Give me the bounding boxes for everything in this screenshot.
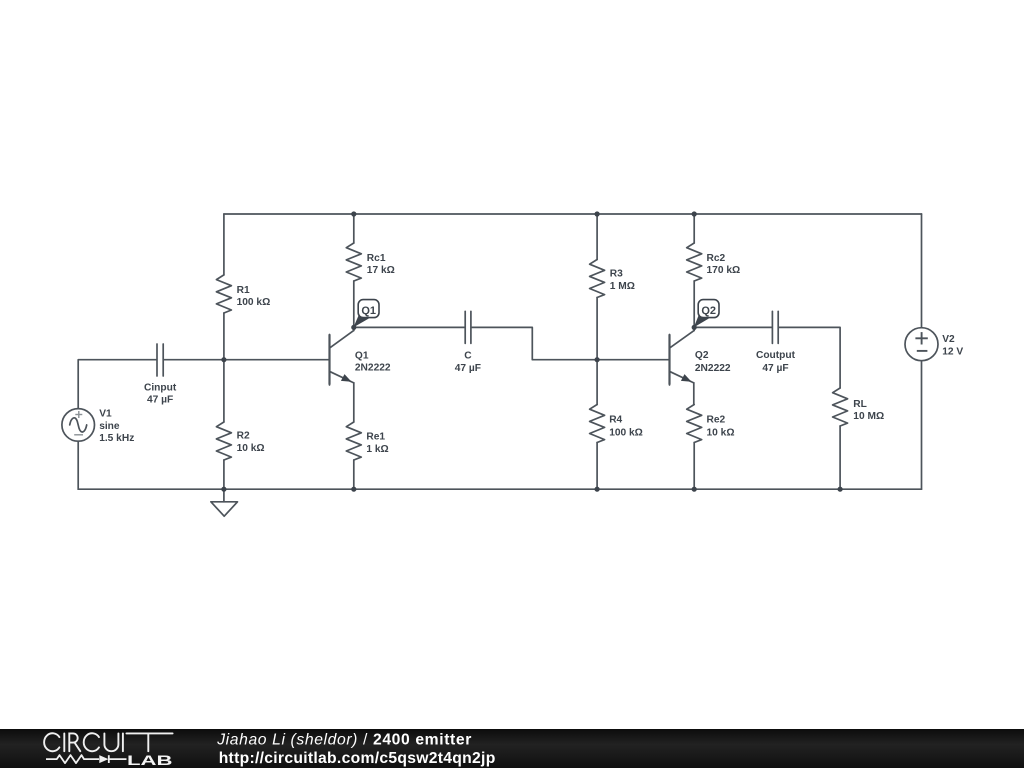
- svg-text:1.5 kHz: 1.5 kHz: [99, 433, 134, 444]
- svg-text:R2: R2: [237, 430, 250, 441]
- svg-text:Re2: Re2: [707, 415, 726, 426]
- svg-text:1 kΩ: 1 kΩ: [366, 444, 388, 455]
- svg-text:1 MΩ: 1 MΩ: [610, 281, 635, 292]
- svg-text:47 µF: 47 µF: [762, 363, 788, 374]
- svg-text:Re1: Re1: [366, 431, 385, 442]
- svg-text:R3: R3: [610, 269, 623, 280]
- svg-text:R4: R4: [609, 415, 622, 426]
- svg-text:170 kΩ: 170 kΩ: [707, 265, 741, 276]
- svg-text:47 µF: 47 µF: [455, 363, 481, 374]
- svg-text:Rc2: Rc2: [707, 253, 726, 264]
- svg-text:LAB: LAB: [127, 753, 173, 768]
- svg-text:Rc1: Rc1: [367, 253, 386, 264]
- svg-text:R1: R1: [237, 285, 250, 296]
- svg-text:V1: V1: [99, 408, 112, 419]
- svg-text:http://circuitlab.com/c5qsw2t4: http://circuitlab.com/c5qsw2t4qn2jp: [219, 750, 496, 767]
- svg-text:Q2: Q2: [695, 350, 709, 361]
- svg-text:Jiahao Li (sheldor) / 2400 emi: Jiahao Li (sheldor) / 2400 emitter: [216, 731, 472, 748]
- svg-text:10 kΩ: 10 kΩ: [237, 443, 265, 454]
- svg-text:sine: sine: [99, 421, 120, 432]
- svg-text:Q1: Q1: [361, 305, 376, 317]
- svg-text:100 kΩ: 100 kΩ: [609, 427, 643, 438]
- svg-text:Q2: Q2: [701, 305, 716, 317]
- svg-text:12 V: 12 V: [942, 346, 963, 357]
- svg-text:Q1: Q1: [355, 350, 369, 361]
- svg-text:2N2222: 2N2222: [355, 363, 391, 374]
- svg-text:100 kΩ: 100 kΩ: [237, 297, 271, 308]
- svg-text:C: C: [464, 350, 472, 361]
- svg-text:RL: RL: [853, 399, 867, 410]
- svg-text:10 MΩ: 10 MΩ: [853, 411, 884, 422]
- svg-text:2N2222: 2N2222: [695, 363, 731, 374]
- svg-text:10 kΩ: 10 kΩ: [707, 427, 735, 438]
- svg-text:V2: V2: [942, 334, 955, 345]
- svg-text:17 kΩ: 17 kΩ: [367, 265, 395, 276]
- svg-text:Cinput: Cinput: [144, 382, 177, 393]
- svg-text:47 µF: 47 µF: [147, 395, 173, 406]
- svg-text:Coutput: Coutput: [756, 350, 796, 361]
